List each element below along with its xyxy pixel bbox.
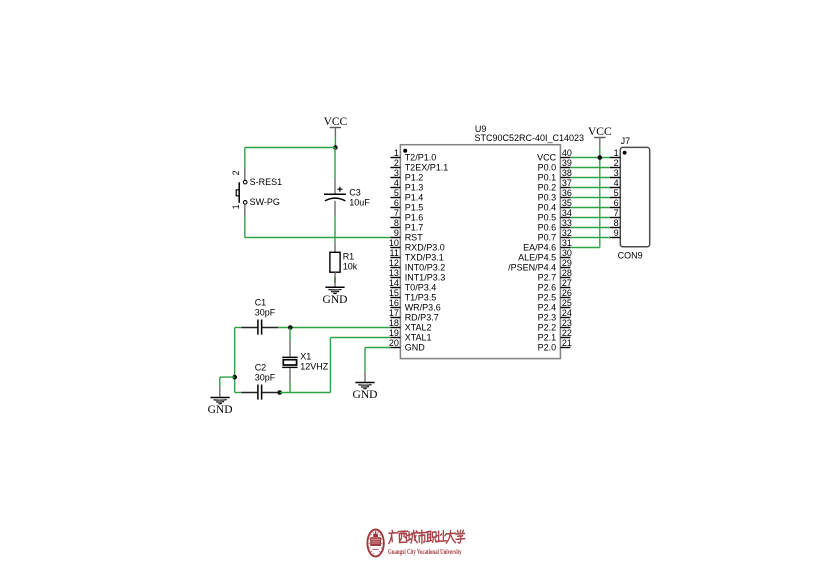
svg-text:P0.6: P0.6: [538, 223, 557, 233]
svg-text:P2.2: P2.2: [538, 323, 557, 333]
svg-text:22: 22: [562, 328, 572, 338]
svg-text:5: 5: [394, 188, 399, 198]
svg-text:28: 28: [562, 268, 572, 278]
svg-text:6: 6: [394, 198, 399, 208]
svg-text:RD/P3.7: RD/P3.7: [405, 313, 439, 323]
svg-text:4: 4: [614, 178, 619, 188]
svg-text:GND: GND: [208, 404, 233, 416]
svg-text:RST: RST: [405, 233, 424, 243]
svg-text:P0.0: P0.0: [538, 163, 557, 173]
svg-text:P2.7: P2.7: [538, 273, 557, 283]
svg-text:XTAL2: XTAL2: [405, 323, 432, 333]
svg-text:P0.3: P0.3: [538, 193, 557, 203]
svg-text:R1: R1: [343, 252, 355, 262]
svg-text:34: 34: [562, 208, 572, 218]
svg-text:GND: GND: [353, 389, 378, 401]
svg-text:VCC: VCC: [537, 153, 557, 163]
svg-text:T2/P1.0: T2/P1.0: [405, 153, 437, 163]
svg-text:SW-PG: SW-PG: [250, 197, 280, 207]
svg-text:S-RES1: S-RES1: [250, 177, 283, 187]
svg-text:INT1/P3.3: INT1/P3.3: [405, 273, 446, 283]
svg-text:10k: 10k: [343, 262, 358, 272]
svg-text:15: 15: [389, 288, 399, 298]
svg-text:T1/P3.5: T1/P3.5: [405, 293, 437, 303]
svg-text:1: 1: [394, 148, 399, 158]
svg-text:9: 9: [614, 228, 619, 238]
svg-text:ALE/P4.5: ALE/P4.5: [518, 253, 556, 263]
svg-text:P1.7: P1.7: [405, 223, 424, 233]
svg-text:10: 10: [389, 238, 399, 248]
svg-text:VCC: VCC: [324, 116, 348, 128]
svg-text:4: 4: [394, 178, 399, 188]
svg-text:P2.5: P2.5: [538, 293, 557, 303]
svg-text:P1.6: P1.6: [405, 213, 424, 223]
svg-text:Guangxi City Vocational Univer: Guangxi City Vocational University: [388, 547, 462, 556]
svg-text:8: 8: [394, 218, 399, 228]
svg-text:31: 31: [562, 238, 572, 248]
svg-text:X1: X1: [300, 352, 311, 362]
svg-text:TXD/P3.1: TXD/P3.1: [405, 253, 444, 263]
svg-text:36: 36: [562, 188, 572, 198]
svg-text:C3: C3: [349, 188, 361, 198]
svg-text:INT0/P3.2: INT0/P3.2: [405, 263, 446, 273]
svg-text:8: 8: [614, 218, 619, 228]
svg-text:5: 5: [614, 188, 619, 198]
svg-text:32: 32: [562, 228, 572, 238]
svg-text:6: 6: [614, 198, 619, 208]
svg-text:16: 16: [389, 298, 399, 308]
svg-text:P1.5: P1.5: [405, 203, 424, 213]
svg-text:XTAL1: XTAL1: [405, 333, 432, 343]
svg-text:P0.1: P0.1: [538, 173, 557, 183]
svg-text:30pF: 30pF: [255, 373, 276, 383]
svg-text:P1.2: P1.2: [405, 173, 424, 183]
svg-text:13: 13: [389, 268, 399, 278]
svg-text:1: 1: [614, 148, 619, 158]
svg-text:17: 17: [389, 308, 399, 318]
svg-text:40: 40: [562, 148, 572, 158]
svg-text:C1: C1: [255, 298, 267, 308]
svg-text:WR/P3.6: WR/P3.6: [405, 303, 441, 313]
svg-text:39: 39: [562, 158, 572, 168]
svg-text:38: 38: [562, 168, 572, 178]
svg-text:P2.1: P2.1: [538, 333, 557, 343]
svg-text:14: 14: [389, 278, 399, 288]
svg-text:30: 30: [562, 248, 572, 258]
svg-text:7: 7: [614, 208, 619, 218]
svg-text:P0.5: P0.5: [538, 213, 557, 223]
svg-text:T2EX/P1.1: T2EX/P1.1: [405, 163, 449, 173]
svg-text:VCC: VCC: [588, 126, 612, 138]
svg-text:2: 2: [394, 158, 399, 168]
svg-text:37: 37: [562, 178, 572, 188]
svg-text:30pF: 30pF: [255, 308, 276, 318]
svg-text:J7: J7: [621, 136, 631, 146]
svg-text:P1.4: P1.4: [405, 193, 424, 203]
svg-text:STC90C52RC-40I_C14023: STC90C52RC-40I_C14023: [475, 133, 585, 143]
svg-text:P0.7: P0.7: [538, 233, 557, 243]
svg-text:P2.3: P2.3: [538, 313, 557, 323]
svg-text:P2.4: P2.4: [538, 303, 557, 313]
svg-text:2: 2: [231, 170, 241, 175]
svg-text:CON9: CON9: [618, 251, 643, 261]
svg-text:23: 23: [562, 318, 572, 328]
svg-text:12: 12: [389, 258, 399, 268]
svg-text:18: 18: [389, 318, 399, 328]
svg-text:T0/P3.4: T0/P3.4: [405, 283, 437, 293]
svg-text:7: 7: [394, 208, 399, 218]
svg-text:RXD/P3.0: RXD/P3.0: [405, 243, 445, 253]
svg-text:EA/P4.6: EA/P4.6: [523, 243, 556, 253]
svg-text:24: 24: [562, 308, 572, 318]
svg-text:35: 35: [562, 198, 572, 208]
svg-text:19: 19: [389, 328, 399, 338]
svg-text:/PSEN/P4.4: /PSEN/P4.4: [508, 263, 556, 273]
svg-text:29: 29: [562, 258, 572, 268]
svg-text:20: 20: [389, 338, 399, 348]
svg-text:11: 11: [390, 248, 399, 258]
svg-text:P0.2: P0.2: [538, 183, 557, 193]
svg-text:GND: GND: [405, 343, 426, 353]
svg-text:P0.4: P0.4: [538, 203, 557, 213]
svg-text:C2: C2: [255, 363, 267, 373]
svg-text:3: 3: [394, 168, 399, 178]
svg-text:2: 2: [614, 158, 619, 168]
svg-text:P2.6: P2.6: [538, 283, 557, 293]
svg-text:12VHZ: 12VHZ: [300, 362, 329, 372]
svg-text:26: 26: [562, 288, 572, 298]
svg-text:9: 9: [394, 228, 399, 238]
svg-text:33: 33: [562, 218, 572, 228]
svg-text:1: 1: [231, 204, 241, 209]
svg-text:27: 27: [562, 278, 572, 288]
svg-text:25: 25: [562, 298, 572, 308]
svg-text:P1.3: P1.3: [405, 183, 424, 193]
svg-text:GND: GND: [323, 294, 348, 306]
svg-text:21: 21: [562, 338, 572, 348]
svg-text:3: 3: [614, 168, 619, 178]
svg-text:10uF: 10uF: [349, 198, 370, 208]
svg-text:P2.0: P2.0: [538, 343, 557, 353]
